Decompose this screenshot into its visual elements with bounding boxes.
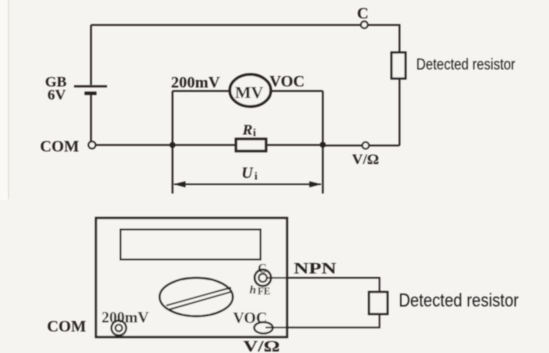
resistor Ri: [236, 139, 266, 151]
wire right vertical of meter box: [322, 91, 324, 194]
terminal C ring: [255, 270, 271, 286]
dial notch line: [215, 288, 231, 292]
node junction left: [170, 142, 176, 148]
multimeter body: [96, 218, 287, 337]
svg-text:R: R: [242, 123, 253, 139]
svg-text:6V: 6V: [48, 88, 67, 104]
battery GB plate short: [85, 92, 97, 95]
svg-text:V/Ω: V/Ω: [352, 152, 379, 168]
detected resistor (top): [392, 53, 406, 79]
wire C to top-right corner: [368, 25, 400, 53]
svg-text:i: i: [253, 128, 256, 139]
detected resistor (bottom): [369, 292, 388, 314]
dial slot line 2: [168, 292, 232, 310]
svg-text:VOC: VOC: [270, 74, 305, 91]
wire right vertical below detected resistor: [399, 79, 401, 146]
wire battery top vertical: [90, 25, 92, 85]
svg-text:FE: FE: [258, 287, 271, 298]
scan edge faint line: [8, 0, 10, 199]
svg-text:Detected resistor: Detected resistor: [399, 291, 519, 311]
svg-text:VOC: VOC: [233, 310, 267, 327]
wire battery bottom vertical: [90, 95, 92, 142]
wire top horizontal to C: [91, 24, 361, 26]
dial slot line 1: [166, 288, 231, 306]
svg-text:200mV: 200mV: [171, 75, 220, 92]
meter MV: [230, 75, 271, 107]
rotary dial: [160, 278, 233, 316]
svg-text:MV: MV: [235, 83, 264, 102]
svg-text:COM: COM: [40, 139, 79, 156]
wire Ri to right junction: [266, 144, 323, 146]
wire left vertical of meter box: [172, 91, 174, 194]
svg-text:Detected resistor: Detected resistor: [416, 57, 515, 74]
wire top of meter box left: [173, 90, 231, 92]
terminal V/ohm (top): [362, 142, 369, 149]
svg-text:i: i: [255, 172, 258, 183]
multimeter display: [121, 230, 261, 260]
svg-text:V/Ω: V/Ω: [243, 339, 280, 353]
wire V/ohm to middle box: [323, 145, 362, 147]
dimension arrow Ui: [174, 183, 321, 185]
terminal C: [361, 21, 368, 28]
left page margin strip: [0, 0, 8, 200]
svg-text:NPN: NPN: [294, 261, 337, 278]
wire C terminal to resistor: [268, 278, 380, 292]
wire resistor to VOC terminal: [266, 314, 380, 328]
terminal VOC: [254, 322, 273, 333]
svg-text:U: U: [242, 165, 254, 182]
svg-text:COM: COM: [47, 319, 86, 336]
battery GB plate long: [74, 85, 107, 87]
node junction right: [320, 142, 326, 148]
wire top of meter box right: [271, 90, 323, 92]
svg-text:h: h: [250, 283, 257, 297]
wire V/ohm row right segment: [370, 145, 400, 147]
terminal COM (top): [89, 142, 96, 149]
wire COM row: [96, 144, 236, 146]
terminal 200mV ring: [111, 321, 126, 336]
svg-text:C: C: [357, 6, 369, 23]
